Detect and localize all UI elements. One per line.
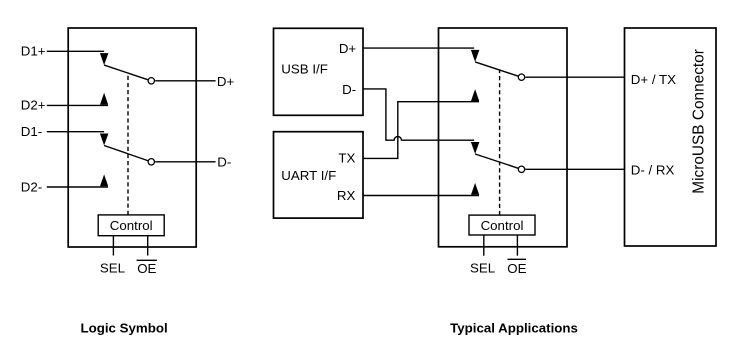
switch SW2 open throw arrow (D2-) xyxy=(100,174,108,186)
svg-text:USB I/F: USB I/F xyxy=(281,61,328,76)
control block (right) xyxy=(469,215,535,235)
wire D1+ input xyxy=(47,50,104,52)
wire D2- input xyxy=(47,186,108,188)
switch SW2 common contact circle xyxy=(148,159,154,165)
switch SW4 wiper xyxy=(475,154,519,168)
switch SW3 pole arrow (D+ throw, closed) xyxy=(471,50,480,62)
wire OE stub (right) xyxy=(516,235,518,256)
switch SW1 common contact circle xyxy=(148,78,154,84)
switch SW3 wiper xyxy=(475,62,519,76)
wire SEL stub (right) xyxy=(483,235,485,256)
svg-text:MicroUSB Connector: MicroUSB Connector xyxy=(691,49,708,194)
switch SW1 wiper xyxy=(104,65,148,80)
svg-text:D+: D+ xyxy=(339,41,357,56)
svg-text:D- / RX: D- / RX xyxy=(631,163,675,178)
switch SW1 open throw arrow (D2+) xyxy=(100,93,108,105)
wire D- output xyxy=(155,161,215,163)
wire UART RX to switch xyxy=(363,195,479,197)
svg-text:Control: Control xyxy=(110,218,153,233)
wire D1- input xyxy=(47,131,104,133)
svg-text:SEL: SEL xyxy=(470,261,495,276)
switch SW3 open throw arrow (TX) xyxy=(471,89,479,101)
control block (left) xyxy=(98,215,164,236)
switch SW3 common contact circle xyxy=(518,74,524,80)
svg-text:D2-: D2- xyxy=(21,179,42,194)
MicroUSB connector block J1 xyxy=(625,28,717,246)
wire D2+ input xyxy=(47,104,108,106)
USB I/F block xyxy=(274,28,364,115)
switch SW2 pole arrow (D1- throw, closed) xyxy=(100,134,109,146)
wire SEL stub (left) xyxy=(112,236,114,256)
switch SW4 pole arrow (D- throw, closed) xyxy=(471,142,480,154)
svg-text:Typical Applications: Typical Applications xyxy=(450,320,578,335)
OE overline (left) xyxy=(137,259,157,261)
svg-text:D1+: D1+ xyxy=(21,44,46,59)
svg-text:SEL: SEL xyxy=(100,261,125,276)
wire USB D+ to switch xyxy=(363,47,474,49)
switch SW4 open throw arrow (RX) xyxy=(471,183,479,195)
wire D-/RX output to connector xyxy=(525,168,624,170)
svg-text:Logic Symbol: Logic Symbol xyxy=(81,320,168,335)
svg-text:D1-: D1- xyxy=(21,124,42,139)
wire D+/TX output to connector xyxy=(525,76,624,78)
wire USB D- to switch (with hop over TX) xyxy=(363,89,474,140)
switch SW4 common contact circle xyxy=(518,166,524,172)
control select dashed line (right) xyxy=(499,70,501,215)
svg-text:OE: OE xyxy=(507,261,526,276)
switch SW1 pole arrow (D1+ throw, closed) xyxy=(100,53,109,65)
control select dashed line (left) xyxy=(127,73,129,215)
svg-text:UART I/F: UART I/F xyxy=(281,168,336,183)
switch SW2 wiper xyxy=(104,146,148,161)
svg-text:RX: RX xyxy=(337,188,356,203)
wire D+ output xyxy=(155,80,215,82)
svg-text:D+ / TX: D+ / TX xyxy=(631,72,676,87)
switch block U2 (typical application) xyxy=(439,28,568,247)
svg-text:D-: D- xyxy=(342,82,356,97)
wire UART TX to switch xyxy=(363,102,479,159)
svg-text:TX: TX xyxy=(338,151,355,166)
svg-text:D-: D- xyxy=(217,155,231,170)
svg-text:OE: OE xyxy=(137,261,156,276)
svg-text:Control: Control xyxy=(481,218,524,233)
UART I/F block xyxy=(274,132,364,218)
wire OE stub (left) xyxy=(147,236,149,256)
svg-text:D+: D+ xyxy=(217,74,235,89)
svg-text:D2+: D2+ xyxy=(21,98,46,113)
OE overline (right) xyxy=(508,258,527,260)
logic symbol main box U1 xyxy=(68,28,196,247)
